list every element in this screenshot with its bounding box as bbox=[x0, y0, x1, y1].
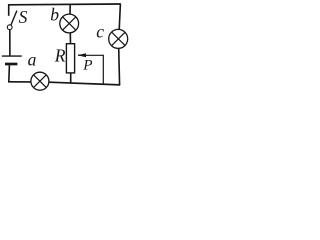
svg-text:S: S bbox=[19, 7, 28, 27]
svg-text:c: c bbox=[96, 22, 104, 42]
svg-text:R: R bbox=[54, 45, 66, 65]
svg-text:a: a bbox=[28, 50, 37, 70]
svg-text:b: b bbox=[50, 5, 59, 25]
svg-text:P: P bbox=[82, 57, 92, 74]
